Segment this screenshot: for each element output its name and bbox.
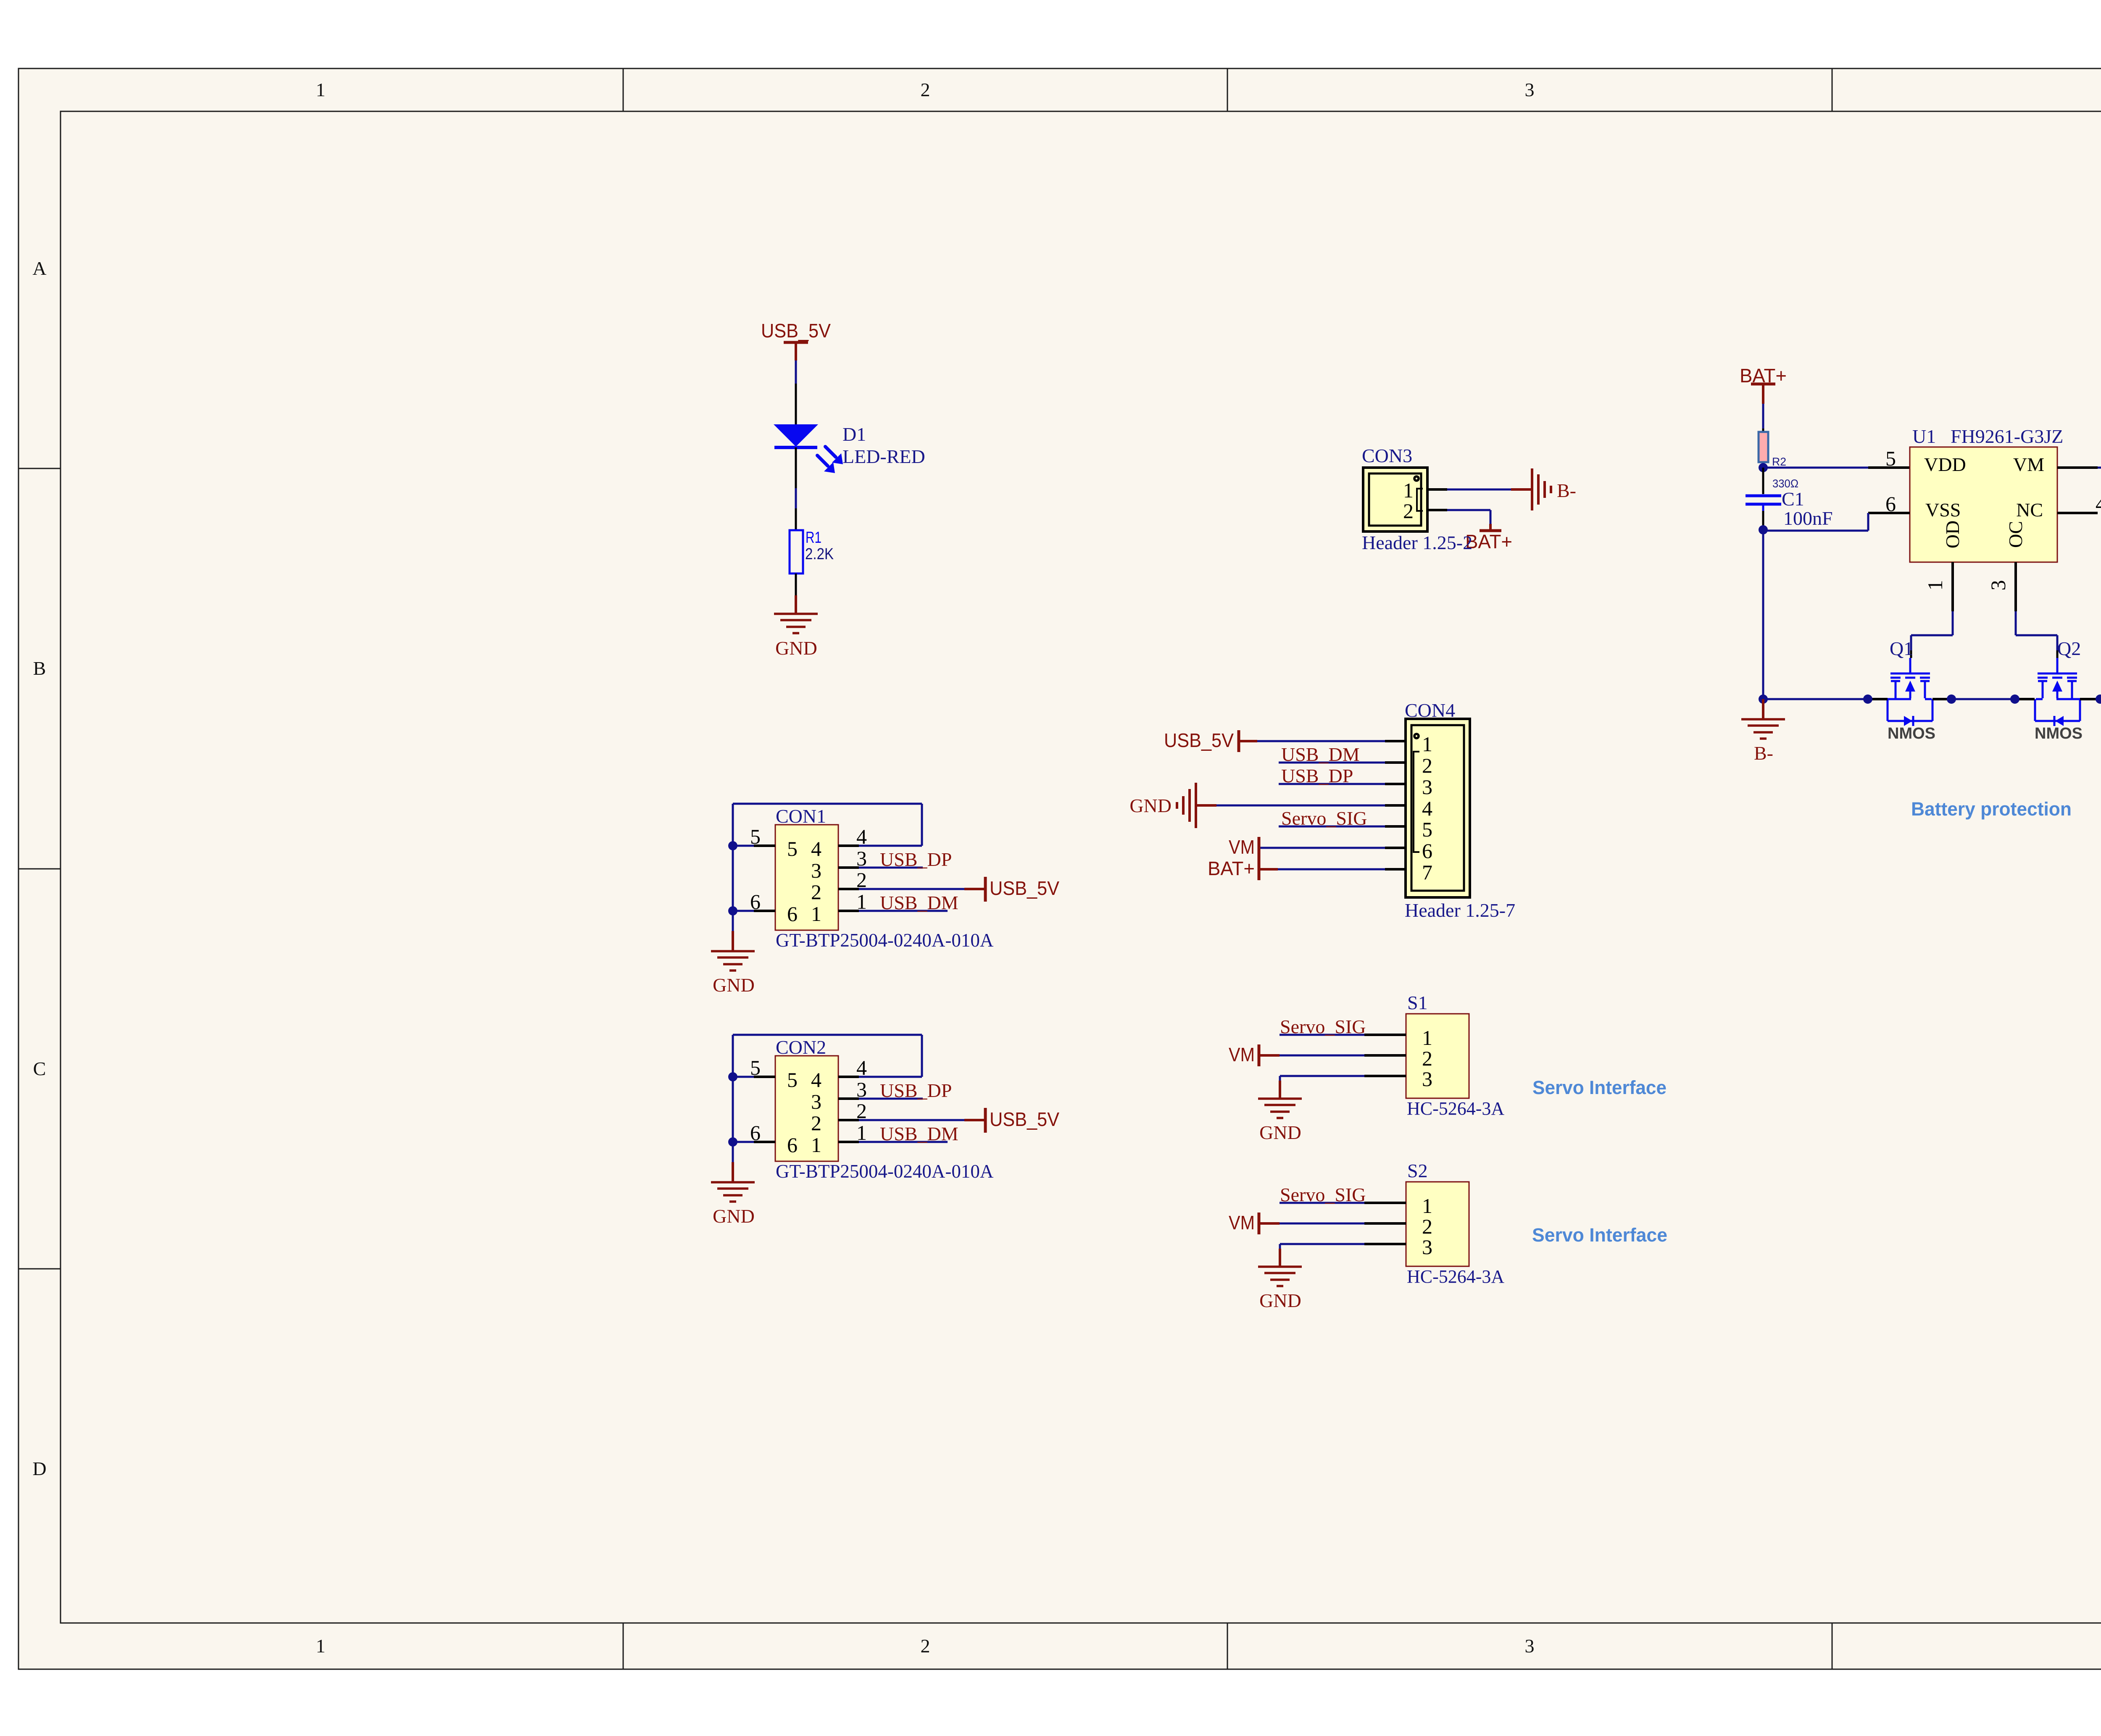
svg-text:C1: C1 (1782, 488, 1804, 510)
svg-text:2: 2 (921, 1635, 930, 1657)
svg-text:HC-5264-3A: HC-5264-3A (1407, 1098, 1504, 1119)
svg-text:USB_DP: USB_DP (1281, 765, 1353, 786)
svg-text:1: 1 (316, 79, 326, 100)
svg-text:S1: S1 (1407, 992, 1428, 1013)
svg-text:2: 2 (1403, 499, 1414, 523)
svg-text:2: 2 (1422, 1215, 1432, 1238)
svg-text:USB_DP: USB_DP (880, 1080, 952, 1101)
svg-text:VM: VM (1229, 1044, 1255, 1065)
svg-text:D1: D1 (843, 423, 866, 445)
svg-text:VDD: VDD (1924, 454, 1966, 475)
svg-text:2: 2 (1422, 1047, 1432, 1070)
svg-text:D: D (32, 1458, 46, 1479)
svg-text:2: 2 (1422, 754, 1432, 777)
svg-text:3: 3 (1422, 1067, 1432, 1091)
svg-text:1: 1 (1403, 479, 1414, 502)
svg-text:GND: GND (1259, 1122, 1301, 1143)
svg-text:OD: OD (1942, 521, 1963, 548)
svg-text:4: 4 (811, 837, 821, 860)
svg-text:USB_DP: USB_DP (880, 849, 952, 870)
svg-text:Q1: Q1 (1890, 638, 1913, 659)
svg-text:B-: B- (1754, 742, 1773, 764)
svg-text:GND: GND (713, 974, 755, 996)
svg-text:4: 4 (2096, 492, 2101, 516)
svg-text:GND: GND (1259, 1290, 1301, 1311)
svg-text:5: 5 (1885, 447, 1896, 470)
svg-text:R2: R2 (1772, 455, 1786, 468)
svg-text:A: A (32, 258, 46, 279)
svg-text:7: 7 (1422, 860, 1432, 884)
svg-text:S2: S2 (1407, 1160, 1428, 1181)
svg-text:3: 3 (811, 859, 821, 882)
svg-text:2: 2 (921, 79, 930, 100)
svg-text:1: 1 (1422, 1026, 1432, 1049)
svg-text:Servo_SIG: Servo_SIG (1280, 1184, 1366, 1205)
svg-text:5: 5 (787, 837, 798, 860)
svg-text:C: C (33, 1058, 46, 1079)
svg-text:USB_DM: USB_DM (880, 892, 958, 913)
svg-text:GND: GND (713, 1205, 755, 1227)
svg-text:Servo Interface: Servo Interface (1532, 1077, 1667, 1098)
svg-text:Battery protection: Battery protection (1911, 798, 2072, 820)
svg-text:6: 6 (787, 1133, 798, 1157)
svg-text:USB_5V: USB_5V (761, 320, 831, 342)
svg-text:2: 2 (811, 880, 821, 904)
svg-text:CON2: CON2 (776, 1036, 826, 1058)
svg-text:6: 6 (1422, 839, 1432, 863)
svg-text:GT-BTP25004-0240A-010A: GT-BTP25004-0240A-010A (776, 930, 994, 951)
svg-text:Servo_SIG: Servo_SIG (1280, 1016, 1366, 1037)
svg-text:VM: VM (2013, 454, 2044, 475)
svg-text:6: 6 (787, 902, 798, 926)
svg-text:USB_DM: USB_DM (880, 1123, 958, 1144)
svg-text:4: 4 (1422, 797, 1432, 820)
svg-text:GND: GND (775, 637, 817, 659)
svg-text:GND: GND (1129, 795, 1172, 816)
svg-text:B-: B- (1557, 480, 1576, 501)
svg-text:3: 3 (1525, 79, 1535, 100)
svg-text:3: 3 (1422, 775, 1432, 799)
svg-text:CON1: CON1 (776, 805, 826, 827)
svg-text:Header 1.25-2: Header 1.25-2 (1362, 532, 1472, 553)
svg-text:3: 3 (1422, 1235, 1432, 1259)
svg-text:Servo Interface: Servo Interface (1532, 1224, 1667, 1246)
svg-text:Q2: Q2 (2057, 638, 2081, 659)
svg-text:1: 1 (1422, 1194, 1432, 1218)
svg-text:3: 3 (1525, 1635, 1535, 1657)
svg-text:NC: NC (2016, 499, 2043, 521)
svg-text:VM: VM (1229, 1212, 1255, 1234)
svg-text:LED-RED: LED-RED (843, 446, 925, 467)
svg-text:VM: VM (1229, 836, 1255, 858)
svg-text:USB_DM: USB_DM (1281, 744, 1360, 765)
svg-text:BAT+: BAT+ (1208, 857, 1255, 879)
svg-text:NMOS: NMOS (2035, 725, 2083, 742)
svg-text:B: B (33, 658, 46, 679)
svg-text:HC-5264-3A: HC-5264-3A (1407, 1266, 1504, 1287)
svg-text:Servo_SIG: Servo_SIG (1281, 808, 1367, 829)
svg-text:VSS: VSS (1925, 499, 1961, 521)
svg-text:1: 1 (316, 1635, 326, 1657)
svg-text:1: 1 (811, 1133, 821, 1157)
svg-text:1: 1 (1422, 732, 1432, 756)
svg-text:R1: R1 (806, 529, 821, 547)
svg-text:USB_5V: USB_5V (1164, 729, 1234, 751)
svg-text:USB_5V: USB_5V (990, 1108, 1059, 1130)
svg-text:1: 1 (1923, 580, 1947, 591)
svg-text:OC: OC (2005, 521, 2026, 548)
svg-text:USB_5V: USB_5V (990, 877, 1059, 899)
svg-text:5: 5 (787, 1068, 798, 1092)
svg-text:FH9261-G3JZ: FH9261-G3JZ (1951, 426, 2063, 447)
svg-text:3: 3 (1986, 580, 2010, 591)
svg-text:U1: U1 (1912, 426, 1936, 447)
svg-text:GT-BTP25004-0240A-010A: GT-BTP25004-0240A-010A (776, 1161, 994, 1182)
svg-text:2.2K: 2.2K (805, 545, 834, 563)
svg-text:NMOS: NMOS (1888, 725, 1935, 742)
svg-text:4: 4 (811, 1068, 821, 1092)
svg-text:CON3: CON3 (1362, 445, 1412, 466)
svg-text:2: 2 (811, 1111, 821, 1135)
svg-text:1: 1 (811, 902, 821, 926)
svg-text:3: 3 (811, 1090, 821, 1113)
svg-text:100nF: 100nF (1783, 508, 1833, 529)
svg-text:5: 5 (1422, 818, 1432, 841)
svg-text:Header 1.25-7: Header 1.25-7 (1405, 900, 1515, 921)
